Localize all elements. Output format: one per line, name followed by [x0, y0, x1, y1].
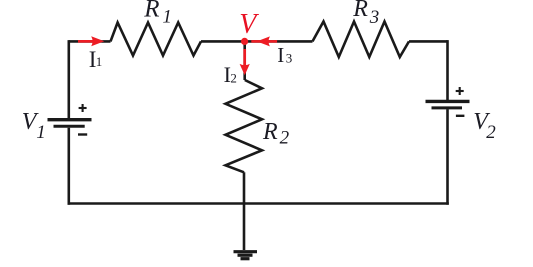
- wire right vertical lower: [446, 109, 449, 205]
- svg-text:V: V: [239, 9, 259, 40]
- svg-text:1: 1: [36, 122, 46, 143]
- battery V1: [48, 120, 92, 127]
- svg-text:I: I: [277, 43, 284, 67]
- plus sign of V2: [456, 87, 464, 95]
- resistor R1: [111, 23, 202, 56]
- svg-text:3: 3: [369, 7, 380, 28]
- label I3: [277, 43, 292, 67]
- label R1: [143, 0, 172, 27]
- wire node V down to R2: [243, 41, 246, 80]
- wire R3 to top-right corner: [409, 40, 448, 43]
- label V1: [22, 109, 46, 143]
- wire right vertical upper: [446, 40, 449, 100]
- svg-text:2: 2: [230, 71, 237, 86]
- wire left vertical upper: [68, 40, 71, 118]
- minus sign of V1: [78, 133, 87, 135]
- battery V2: [426, 101, 470, 108]
- wire R1 to node V: [201, 40, 245, 43]
- wire bottom horizontal: [68, 202, 449, 205]
- current arrow I1: [78, 36, 104, 46]
- wire top-left horizontal: [69, 40, 111, 43]
- svg-text:1: 1: [96, 54, 103, 69]
- wire left vertical lower: [68, 128, 71, 205]
- resistor R2: [226, 80, 263, 172]
- label I2: [224, 62, 237, 87]
- label I1: [89, 47, 102, 72]
- label R3: [352, 0, 379, 28]
- svg-text:2: 2: [486, 122, 496, 143]
- resistor R3: [313, 22, 410, 58]
- svg-text:3: 3: [286, 51, 293, 66]
- current arrow I2: [240, 49, 250, 75]
- wire R2 to ground (crosses bottom wire): [243, 172, 246, 250]
- label R2: [262, 119, 290, 148]
- svg-text:R: R: [262, 119, 278, 145]
- svg-text:2: 2: [280, 127, 290, 148]
- svg-text:1: 1: [162, 6, 172, 27]
- svg-text:R: R: [143, 0, 159, 23]
- node V junction dot: [241, 38, 248, 45]
- svg-text:R: R: [352, 0, 368, 22]
- wire node V to R3: [245, 40, 313, 43]
- ground: [234, 252, 258, 259]
- minus sign of V2: [456, 115, 465, 117]
- plus sign of V1: [79, 104, 87, 112]
- current arrow I3: [251, 36, 277, 46]
- label V2: [473, 109, 496, 143]
